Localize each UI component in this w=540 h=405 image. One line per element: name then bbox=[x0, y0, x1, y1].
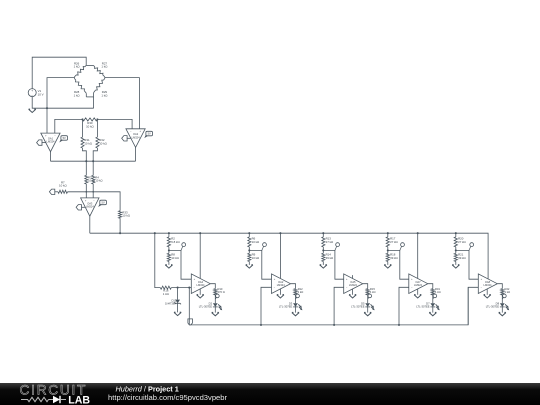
wire bbox=[92, 184, 94, 198]
LED D2 bbox=[213, 303, 222, 310]
node junction bbox=[188, 287, 190, 289]
wire bbox=[155, 233, 161, 287]
op-amp OA4 bbox=[191, 274, 210, 294]
resistor R32 bbox=[96, 137, 99, 148]
svg-text:−: − bbox=[194, 286, 196, 289]
wire bbox=[322, 247, 324, 253]
node junction bbox=[322, 249, 324, 251]
svg-text:−: − bbox=[346, 286, 348, 289]
probe LED node 1 bbox=[215, 294, 219, 299]
resistor R12 label bbox=[298, 287, 304, 294]
wire V+ pin bbox=[199, 233, 201, 278]
svg-text:LTL-307EE: LTL-307EE bbox=[279, 305, 293, 309]
ground op-amp 3 bbox=[349, 295, 356, 298]
svg-text:−: − bbox=[481, 286, 483, 289]
node junction bbox=[81, 118, 83, 120]
LED D2 label bbox=[199, 301, 213, 308]
node junction bbox=[387, 249, 389, 251]
svg-text:LM324: LM324 bbox=[132, 135, 140, 139]
resistor R6 label bbox=[252, 236, 260, 243]
resistor R17 label bbox=[390, 236, 398, 243]
svg-text:10 kΩ: 10 kΩ bbox=[122, 214, 130, 218]
wire bbox=[214, 307, 216, 313]
svg-text:+: + bbox=[139, 130, 141, 133]
resistor R20 label bbox=[458, 236, 466, 243]
svg-text:−: − bbox=[411, 286, 413, 289]
wire bbox=[171, 287, 191, 289]
wire V- pin bbox=[486, 289, 488, 295]
wire bbox=[32, 97, 93, 109]
svg-text:1 kΩ: 1 kΩ bbox=[74, 65, 81, 69]
wire tap bbox=[169, 250, 191, 279]
svg-text:LM324: LM324 bbox=[277, 283, 285, 287]
svg-text:+: + bbox=[45, 135, 47, 138]
resistor R21 bbox=[454, 253, 457, 261]
node junction bbox=[333, 324, 335, 326]
svg-text:LM324: LM324 bbox=[47, 140, 55, 144]
ground LED 5 bbox=[499, 313, 506, 316]
svg-text:10 kΩ: 10 kΩ bbox=[59, 184, 67, 188]
svg-text:LM324: LM324 bbox=[349, 283, 357, 287]
svg-text:1 kΩ: 1 kΩ bbox=[74, 94, 81, 98]
wire tap bbox=[456, 250, 479, 279]
flag VCC OA1 bbox=[37, 140, 46, 145]
svg-text:LTL-307EE: LTL-307EE bbox=[416, 305, 430, 309]
wire bbox=[168, 233, 170, 237]
resistor R8 bbox=[167, 253, 170, 261]
resistor R15 label bbox=[370, 287, 376, 294]
resistor R13 bbox=[322, 237, 325, 247]
wire bbox=[104, 77, 106, 79]
wire output bbox=[363, 284, 368, 289]
svg-text:1 kΩ: 1 kΩ bbox=[298, 290, 304, 294]
resistor R26 label bbox=[74, 61, 81, 68]
wire bbox=[55, 119, 83, 133]
wire bbox=[51, 160, 136, 162]
resistor R31 bbox=[81, 137, 84, 148]
wire bbox=[85, 184, 87, 198]
resistor R26 bbox=[74, 65, 86, 77]
resistor R29 bbox=[94, 78, 105, 97]
node junction bbox=[177, 287, 179, 289]
resistor R17 bbox=[386, 237, 389, 247]
wire V- pin bbox=[417, 289, 419, 295]
svg-text:10 kΩ: 10 kΩ bbox=[95, 179, 102, 183]
wire bbox=[97, 119, 132, 128]
wire bbox=[89, 216, 91, 233]
ground op-amp 5 bbox=[484, 295, 491, 298]
wire bbox=[177, 303, 179, 312]
ground divider 4 bbox=[384, 265, 391, 268]
wire bbox=[387, 262, 389, 265]
svg-text:1 kΩ: 1 kΩ bbox=[505, 290, 511, 294]
ground LED 1 bbox=[212, 313, 219, 316]
svg-text:LTL-307EE: LTL-307EE bbox=[486, 305, 500, 309]
svg-text:−: − bbox=[54, 135, 56, 138]
op-amp OA1 bbox=[41, 133, 60, 152]
op-amp OA5 bbox=[344, 274, 363, 294]
node junction bbox=[279, 232, 281, 234]
svg-text:1 kΩ: 1 kΩ bbox=[163, 292, 170, 296]
ground LED 2 bbox=[292, 313, 299, 316]
ground op-amp 2 bbox=[277, 295, 284, 298]
op-amp OA8 bbox=[478, 274, 497, 294]
wire tap bbox=[388, 250, 409, 279]
wire output bbox=[291, 284, 296, 289]
svg-text:10 kΩ: 10 kΩ bbox=[86, 125, 94, 129]
svg-text:+: + bbox=[194, 278, 196, 281]
probe node 1 bbox=[181, 243, 186, 251]
ground op-amp 1 bbox=[197, 295, 204, 298]
svg-text:+: + bbox=[411, 278, 413, 281]
tag OA1 bbox=[59, 136, 67, 143]
wire bbox=[501, 307, 503, 313]
wire bbox=[214, 295, 216, 303]
resistor R19 label bbox=[435, 287, 441, 294]
ground zener bbox=[174, 312, 181, 315]
wire bbox=[501, 295, 503, 303]
resistor R18 label bbox=[390, 253, 398, 260]
resistor R30 label bbox=[86, 121, 94, 128]
wire bbox=[86, 64, 93, 66]
resistor R15 bbox=[366, 289, 369, 295]
resistor R29 label bbox=[101, 90, 108, 97]
wire bbox=[50, 152, 52, 162]
LED D8 bbox=[500, 303, 509, 310]
svg-text:39 kΩ: 39 kΩ bbox=[390, 256, 398, 260]
logo resistor zigzag bbox=[21, 397, 49, 401]
svg-text:10 kΩ: 10 kΩ bbox=[252, 240, 260, 244]
resistor R32 label bbox=[99, 138, 107, 145]
LED D5 bbox=[365, 303, 374, 310]
svg-text:39 kΩ: 39 kΩ bbox=[326, 256, 334, 260]
resistor R3 bbox=[85, 175, 88, 184]
wire bbox=[168, 247, 170, 253]
resistor R10 label bbox=[218, 287, 225, 294]
ground LED 3 bbox=[364, 313, 371, 316]
op-amp OA2 bbox=[272, 274, 291, 294]
op-amp OA3 bbox=[81, 198, 99, 216]
resistor R27 label bbox=[101, 61, 108, 68]
wire bbox=[83, 148, 87, 175]
wire bbox=[47, 78, 74, 134]
resistor R31 label bbox=[84, 138, 92, 145]
svg-text:http://circuitlab.com/c95pvcd3: http://circuitlab.com/c95pvcd3vpebr bbox=[108, 393, 227, 402]
resistor R13 label bbox=[326, 236, 334, 243]
node junction bbox=[417, 232, 419, 234]
resistor R6 bbox=[248, 237, 251, 247]
wire bbox=[73, 77, 75, 79]
svg-text:1 kΩ: 1 kΩ bbox=[101, 65, 108, 69]
wire bbox=[32, 57, 86, 88]
node junction bbox=[92, 160, 94, 162]
node junction bbox=[96, 118, 98, 120]
wire bbox=[93, 148, 97, 175]
logo diode bbox=[49, 399, 54, 401]
svg-text:LAB: LAB bbox=[68, 394, 90, 405]
resistor R10 bbox=[214, 289, 217, 295]
svg-text:1 kΩ: 1 kΩ bbox=[370, 290, 376, 294]
svg-text:10 kΩ: 10 kΩ bbox=[84, 141, 92, 145]
tag OA3 bbox=[98, 200, 106, 207]
probe LED node 2 bbox=[296, 294, 300, 299]
svg-text:5V: 5V bbox=[148, 132, 151, 136]
wire V- pin bbox=[352, 289, 354, 295]
svg-text:LM324: LM324 bbox=[484, 283, 492, 287]
svg-text:5V: 5V bbox=[102, 201, 105, 205]
resistor R28 label bbox=[74, 90, 81, 97]
node junction bbox=[387, 232, 389, 234]
resistor R20 bbox=[454, 237, 457, 247]
resistor R16 label bbox=[163, 289, 170, 296]
resistor R14 label bbox=[326, 253, 334, 260]
resistor R9 label bbox=[252, 253, 260, 260]
resistor R33 label bbox=[122, 210, 130, 217]
svg-text:1N4738A: 1N4738A bbox=[165, 302, 176, 306]
wire V+ pin bbox=[417, 233, 419, 278]
svg-text:LM324: LM324 bbox=[197, 283, 205, 287]
wire V- pin bbox=[279, 289, 281, 295]
svg-text:6.8 kΩ: 6.8 kΩ bbox=[171, 240, 180, 244]
resistor R19 bbox=[431, 289, 434, 295]
LED D7 bbox=[430, 303, 439, 310]
resistor R33 bbox=[119, 211, 122, 219]
svg-text:−: − bbox=[130, 130, 132, 133]
resistor R30 bbox=[83, 118, 98, 121]
probe LED node 5 bbox=[502, 294, 506, 299]
resistor R7 bbox=[58, 190, 68, 193]
wire bbox=[93, 97, 95, 108]
svg-text:LM324: LM324 bbox=[414, 283, 422, 287]
wire bbox=[455, 233, 457, 237]
resistor R27 bbox=[93, 65, 104, 77]
node junction bbox=[85, 191, 87, 193]
node junction bbox=[455, 232, 457, 234]
wire bbox=[455, 247, 457, 253]
wire bbox=[248, 233, 250, 237]
svg-text:10 kΩ: 10 kΩ bbox=[99, 141, 107, 145]
wire bbox=[68, 192, 121, 211]
wire bbox=[295, 307, 297, 313]
wire bbox=[96, 119, 98, 137]
svg-text:10 kΩ: 10 kΩ bbox=[171, 256, 179, 260]
ground LED 4 bbox=[429, 313, 436, 316]
svg-text:39 kΩ: 39 kΩ bbox=[458, 256, 466, 260]
probe node 2 bbox=[262, 243, 267, 251]
wire bus bbox=[90, 233, 488, 279]
svg-text:470 Ω: 470 Ω bbox=[218, 290, 225, 294]
wire bbox=[248, 262, 250, 265]
wire bbox=[119, 218, 121, 233]
LED D3 bbox=[293, 303, 302, 310]
wire bbox=[432, 307, 434, 313]
resistor R4 bbox=[92, 175, 95, 184]
svg-text:1 kΩ: 1 kΩ bbox=[101, 94, 108, 98]
svg-text:LTL-307EE: LTL-307EE bbox=[351, 305, 365, 309]
svg-text:−: − bbox=[274, 286, 276, 289]
svg-text:LM324: LM324 bbox=[86, 204, 94, 208]
probe LED node 3 bbox=[368, 294, 372, 299]
svg-text:10 V: 10 V bbox=[38, 93, 44, 97]
resistor R8 label bbox=[171, 253, 179, 260]
resistor R28 bbox=[74, 78, 86, 97]
wire bbox=[367, 307, 369, 313]
wire bbox=[387, 247, 389, 253]
resistor R21 label bbox=[458, 253, 466, 260]
resistor R14 bbox=[322, 253, 325, 261]
node junction bbox=[248, 249, 250, 251]
voltage source V1 bbox=[28, 89, 43, 98]
wire bbox=[455, 262, 457, 265]
ground divider 2 bbox=[246, 265, 253, 268]
wire bbox=[168, 262, 170, 265]
zener D11 bbox=[174, 288, 181, 305]
flag VCC OA2 bbox=[122, 136, 131, 141]
wire bbox=[248, 247, 250, 253]
tag OA2 bbox=[144, 131, 152, 138]
node junction bbox=[260, 324, 262, 326]
resistor R18 bbox=[386, 253, 389, 261]
wire output bbox=[428, 284, 433, 289]
ground divider 5 bbox=[452, 265, 459, 268]
wire bbox=[188, 288, 190, 325]
wire output bbox=[497, 284, 502, 289]
svg-text:+: + bbox=[274, 278, 276, 281]
resistor R4 label bbox=[95, 176, 102, 183]
resistor R2 bbox=[167, 237, 170, 247]
wire V+ pin bbox=[279, 233, 281, 278]
op-amp OA7 bbox=[409, 274, 428, 294]
node junction bbox=[154, 232, 156, 234]
resistor R12 bbox=[294, 289, 297, 295]
wire tap bbox=[323, 250, 343, 279]
node junction bbox=[168, 232, 170, 234]
wire bbox=[322, 262, 324, 265]
wire minus input bbox=[261, 287, 272, 325]
svg-text:27 kΩ: 27 kΩ bbox=[326, 240, 334, 244]
wire bbox=[135, 147, 137, 161]
node junction bbox=[398, 324, 400, 326]
resistor R22 label bbox=[505, 287, 511, 294]
ground divider 1 bbox=[165, 265, 172, 268]
V+ pin stub bbox=[352, 275, 354, 278]
resistor R22 bbox=[501, 289, 504, 295]
wire bbox=[432, 295, 434, 303]
svg-text:27 kΩ: 27 kΩ bbox=[458, 240, 466, 244]
wire bbox=[82, 119, 84, 137]
node junction bbox=[168, 249, 170, 251]
svg-text:+: + bbox=[481, 278, 483, 281]
node junction bbox=[248, 232, 250, 234]
flag net bottom bbox=[188, 319, 193, 325]
svg-text:+: + bbox=[31, 89, 33, 93]
LED D7 label bbox=[416, 301, 430, 308]
wire output bbox=[210, 284, 215, 289]
wire V- pin bbox=[199, 289, 201, 295]
svg-text:LTL-307EE: LTL-307EE bbox=[199, 305, 213, 309]
svg-text:+: + bbox=[346, 278, 348, 281]
node junction bbox=[322, 232, 324, 234]
svg-text:10 kΩ: 10 kΩ bbox=[252, 256, 260, 260]
wire bbox=[387, 233, 389, 237]
wire minus input bbox=[468, 287, 478, 325]
flag VCC OA3 bbox=[76, 205, 85, 210]
svg-text:1 kΩ: 1 kΩ bbox=[435, 290, 441, 294]
resistor R7 label bbox=[59, 180, 67, 187]
node junction bbox=[46, 107, 48, 109]
svg-text:27 kΩ: 27 kΩ bbox=[390, 240, 398, 244]
resistor R2 label bbox=[171, 236, 180, 243]
ground divider 3 bbox=[320, 265, 327, 268]
node junction bbox=[119, 232, 121, 234]
wire minus input bbox=[334, 287, 344, 325]
wire tap bbox=[249, 250, 271, 279]
probe LED node 4 bbox=[433, 294, 437, 299]
node junction bbox=[85, 160, 87, 162]
wire bus bottom bbox=[189, 287, 468, 325]
resistor R16 bbox=[160, 286, 171, 289]
wire minus input bbox=[399, 287, 409, 325]
resistor R3 label bbox=[88, 176, 95, 183]
wire bbox=[86, 96, 93, 98]
probe node 4 bbox=[400, 243, 405, 251]
ground bbox=[29, 109, 36, 112]
flag input bbox=[49, 189, 58, 194]
probe node 3 bbox=[335, 243, 340, 251]
LED D8 label bbox=[486, 301, 500, 308]
node junction bbox=[92, 191, 94, 193]
probe node 5 bbox=[469, 243, 474, 251]
wire bbox=[105, 78, 140, 129]
LED D5 label bbox=[351, 301, 365, 308]
node junction bbox=[455, 249, 457, 251]
LED D3 label bbox=[279, 301, 293, 308]
wire bbox=[322, 233, 324, 237]
resistor R9 bbox=[248, 253, 251, 261]
svg-text:−: − bbox=[93, 199, 95, 202]
op-amp OA2 bbox=[126, 129, 145, 148]
wire bbox=[295, 295, 297, 303]
ground op-amp 4 bbox=[414, 295, 421, 298]
svg-text:5V: 5V bbox=[63, 136, 66, 140]
zener D11 label bbox=[165, 298, 177, 305]
node junction bbox=[199, 232, 201, 234]
wire bbox=[367, 295, 369, 303]
